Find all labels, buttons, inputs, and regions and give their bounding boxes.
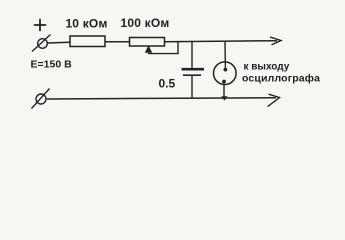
capacitor C 0.5 top lead (191, 42, 193, 68)
svg-text:0.5: 0.5 (159, 77, 176, 91)
junction arrow at bottom wire (221, 96, 227, 100)
svg-text:10 кОм: 10 кОм (65, 17, 107, 31)
resistor R1 10 kOhm (70, 36, 105, 47)
plus polarity sign (35, 20, 46, 31)
connector pin upper dot (224, 68, 228, 72)
connector bottom lead (223, 83, 225, 97)
connector pin lower dot (222, 80, 226, 84)
main top wire from R2 to arrow (165, 41, 278, 42)
wire terminal to R1 (47, 41, 70, 44)
connector jack lead from top wire (224, 42, 226, 69)
svg-text:E=150 В: E=150 В (31, 59, 73, 71)
capacitor C bottom plate (183, 74, 201, 76)
terminal bottom-left clamp (32, 89, 50, 109)
connector jack circle (214, 62, 237, 85)
bottom wire (47, 98, 276, 99)
bottom arrow to oscilloscope (268, 94, 280, 106)
wiper wire down-right-up to main wire (149, 42, 179, 54)
svg-text:100 кОм: 100 кОм (121, 16, 170, 30)
wiper arrow of R2 (146, 46, 152, 53)
potentiometer R2 100 kOhm (130, 38, 165, 47)
svg-text:осциллографа: осциллографа (242, 73, 320, 85)
capacitor C bottom lead (191, 76, 193, 99)
terminal top-left input clamp (32, 35, 51, 52)
svg-text:к выходу: к выходу (244, 62, 290, 73)
wire R1 to R2 (105, 41, 130, 43)
capacitor C top plate (182, 68, 205, 71)
top arrow to oscilloscope (271, 37, 282, 44)
